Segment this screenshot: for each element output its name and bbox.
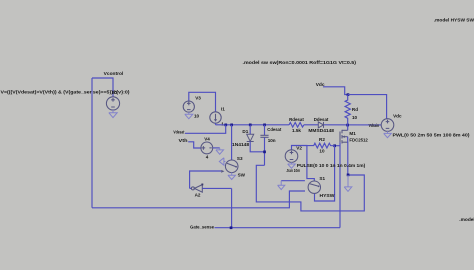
wire Cdesat bottom to source rail <box>256 165 364 211</box>
wire Gate_sense run <box>215 227 341 229</box>
svg-text:S1: S1 <box>319 176 325 181</box>
svg-text:10: 10 <box>194 114 200 119</box>
wire Vcontrol top <box>92 78 113 97</box>
node junction gate <box>333 144 336 147</box>
svg-text:D1: D1 <box>242 129 248 134</box>
wire desat node row <box>216 124 290 126</box>
node junction Gate_sense <box>230 226 233 229</box>
svg-text:S3: S3 <box>237 156 243 161</box>
switch S3 <box>225 160 238 173</box>
svg-text:B2: B2 <box>112 90 118 95</box>
ground below B2 <box>109 110 117 118</box>
resistor R2 <box>307 143 335 148</box>
wire Vdesat stub <box>185 125 226 134</box>
svg-text:V3: V3 <box>195 96 201 101</box>
wire Vth to V4 <box>188 142 201 148</box>
svg-text:.model sw: .model sw <box>459 217 474 223</box>
svg-text:.model sw sw(Ron=0.0001 Roff=1: .model sw sw(Ron=0.0001 Roff=1G1G Vt=0.5… <box>243 60 357 66</box>
svg-text:HYSW: HYSW <box>320 193 336 198</box>
svg-text:Rd: Rd <box>352 107 358 112</box>
wire A2 output riser to S3 <box>189 171 191 188</box>
wire S1 control plus <box>281 180 305 182</box>
ground rotated at S3 control plus <box>219 158 225 165</box>
svg-text:Vth: Vth <box>179 138 188 144</box>
wire gate node to gate <box>335 145 340 147</box>
svg-text:.model HYSW SW(: .model HYSW SW( <box>434 17 474 23</box>
wire A2 input <box>202 187 231 189</box>
svg-text:4: 4 <box>206 155 209 160</box>
wire V4 right <box>213 147 220 149</box>
svg-text:V2: V2 <box>296 146 302 151</box>
wire gate lead of M1 down to Gate_sense <box>339 142 341 227</box>
wire S3 top riser <box>231 125 233 160</box>
wire Vdc label to node <box>323 87 348 95</box>
svg-text:I1: I1 <box>221 106 225 111</box>
svg-text:Vdesat: Vdesat <box>173 129 184 135</box>
pin arrow S3 control minus <box>221 170 224 173</box>
svg-text:Vcontrol: Vcontrol <box>104 71 124 77</box>
svg-text:V4: V4 <box>204 136 210 141</box>
svg-text:10: 10 <box>352 115 358 120</box>
svg-text:1N4148: 1N4148 <box>232 142 250 147</box>
wire A2 input riser to Gate_sense <box>231 188 233 227</box>
svg-text:1.5k: 1.5k <box>292 128 301 133</box>
svg-text:Gate_sense: Gate_sense <box>190 225 214 231</box>
svg-text:Vdrain: Vdrain <box>369 123 380 129</box>
ground right of V4 <box>216 148 224 154</box>
node junction at Vdc rail <box>347 93 350 96</box>
node junction at M1 source <box>347 174 350 177</box>
diode Ddesat <box>318 122 323 128</box>
svg-text:Cdesat: Cdesat <box>267 127 281 132</box>
voltage source V2 <box>285 146 314 182</box>
wire S3 control minus from A2 <box>190 170 221 172</box>
op-amp B2 (behavioral source) <box>106 97 119 110</box>
svg-text:R2: R2 <box>319 137 325 142</box>
svg-text:10: 10 <box>319 148 325 153</box>
transistor M1 <box>340 125 348 175</box>
ground below Vdc <box>384 131 392 137</box>
ground below V3 <box>185 112 193 119</box>
wire B2 to S1 ctrl bottom run <box>92 191 305 208</box>
svg-text:Rdesat: Rdesat <box>289 117 304 122</box>
svg-text:PWL(0 50 2m 50 5m 100 8m 40): PWL(0 50 2m 50 5m 100 8m 40) <box>393 133 470 139</box>
svg-text:10n: 10n <box>268 138 276 143</box>
voltage source V4 <box>201 142 213 154</box>
svg-text:MMSD4148: MMSD4148 <box>308 128 334 133</box>
current source I1 <box>210 112 221 125</box>
svg-text:1: 1 <box>221 122 224 127</box>
svg-text:PULSE(0 10 0 1n 1n 0.4m 1m): PULSE(0 10 0 1n 1n 0.4m 1m) <box>297 163 366 169</box>
wire row between resistor and diode <box>304 124 318 126</box>
svg-text:FDC2512: FDC2512 <box>349 137 368 142</box>
svg-text:.tran 10m: .tran 10m <box>286 168 300 174</box>
ground below S3 <box>228 173 236 180</box>
svg-text:A2: A2 <box>195 192 201 197</box>
node junction dots on desat row <box>224 124 349 127</box>
ground at S1 control plus <box>278 181 285 190</box>
resistor Rd <box>345 95 350 125</box>
node junction below Cdesat <box>263 151 266 154</box>
capacitor Cdesat <box>260 125 268 166</box>
wire drain row to Vdc source <box>324 124 382 126</box>
diode D1 <box>247 125 265 152</box>
inverter A2 <box>190 184 204 193</box>
svg-text:Ddesat: Ddesat <box>314 117 329 122</box>
voltage source V3 <box>183 92 215 112</box>
svg-text:V=(((V(Vdesat)>V(Vth)) & (V(ga: V=(((V(Vdesat)>V(Vth)) & (V(gate_sense)>… <box>1 89 130 95</box>
svg-text:SW: SW <box>238 173 246 178</box>
voltage source Vdc <box>381 119 394 132</box>
wire gate node riser to S1 <box>315 146 335 201</box>
ground below V2 <box>288 162 296 168</box>
switch S1 <box>308 181 320 193</box>
wire left vertical bus <box>91 78 93 208</box>
svg-text:Vdc: Vdc <box>393 113 402 118</box>
wire Vdc rail to source Vdc <box>348 95 387 119</box>
ground below M1 source <box>344 175 352 191</box>
svg-text:M1: M1 <box>349 131 356 136</box>
resistor Rdesat <box>289 123 304 128</box>
